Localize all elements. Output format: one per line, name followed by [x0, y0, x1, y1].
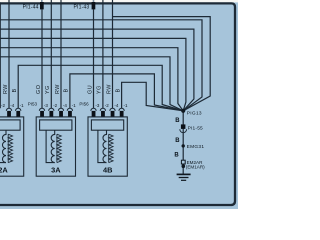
- svg-text:-3: -3: [95, 103, 99, 108]
- ignition coil 3A: [36, 108, 75, 176]
- connector socket arc 3A -1: [67, 108, 72, 111]
- bus wire from left edge level 2: [0, 29, 194, 111]
- bus wire from left edge level 1: [0, 20, 202, 111]
- connector socket arc 4B -3: [91, 108, 96, 111]
- svg-text:PI56: PI56: [79, 101, 89, 106]
- pin 2A -4: [7, 111, 11, 117]
- svg-text:RW: RW: [55, 84, 61, 94]
- svg-text:-3: -3: [44, 103, 48, 108]
- connector socket arc 3A -4: [58, 108, 63, 111]
- page background: [0, 0, 238, 209]
- diagram border: [0, 3, 235, 205]
- wire colour labels (vertical): [3, 84, 122, 94]
- wire 2A YG stub at left edge: [0, 2, 1, 108]
- wire 3A RW: [60, 0, 62, 108]
- svg-text:PI1-44: PI1-44: [23, 4, 39, 10]
- pin 3A -1: [68, 111, 72, 117]
- svg-text:PI53: PI53: [28, 101, 38, 106]
- white strip above diagram border: [0, 0, 238, 2]
- wire 4B GU: [93, 9, 95, 108]
- bus wire from left edge level 3: [0, 38, 186, 110]
- coil 3A outer box: [36, 117, 75, 176]
- svg-text:-4: -4: [114, 103, 118, 108]
- coil 4B winding: [103, 130, 107, 162]
- svg-text:RW: RW: [3, 84, 9, 94]
- coil 2A core hatches: [7, 134, 9, 162]
- ground: [177, 174, 191, 180]
- ignition coil 2A: [0, 108, 24, 176]
- pin 4B -4: [111, 111, 115, 117]
- svg-text:(EM1AR): (EM1AR): [186, 164, 205, 169]
- connector socket arc 2A -4: [6, 108, 11, 111]
- svg-text:GU: GU: [87, 85, 93, 94]
- svg-text:-2: -2: [53, 103, 57, 108]
- pin 4B -3: [92, 111, 96, 117]
- node EMG31: [182, 144, 185, 147]
- wire PIG13 down to ground: [182, 111, 184, 174]
- connector socket arc 3A -3: [39, 108, 44, 111]
- pin 2A -1: [16, 111, 20, 117]
- svg-text:3A: 3A: [51, 165, 61, 174]
- svg-text:GO: GO: [36, 85, 42, 94]
- svg-text:B: B: [175, 138, 180, 144]
- connector socket arc 4B -1: [119, 108, 124, 111]
- svg-text:-1: -1: [72, 103, 76, 108]
- pin 3A -2: [49, 111, 53, 117]
- pin 3A -4: [59, 111, 63, 117]
- wire 2A RW: [8, 0, 10, 108]
- coil 3A housing: [40, 120, 72, 130]
- connector socket arc 3A -2: [49, 108, 54, 111]
- svg-text:RW: RW: [106, 84, 112, 94]
- coil 2A primary wire: [0, 130, 6, 162]
- svg-text:-1: -1: [20, 103, 24, 108]
- svg-text:PI1-55: PI1-55: [188, 125, 203, 131]
- svg-text:-4: -4: [10, 103, 14, 108]
- wire 4B YG: [102, 0, 104, 108]
- coil 4B primary wire: [98, 130, 107, 162]
- svg-text:B: B: [174, 153, 179, 159]
- svg-text:-1: -1: [124, 103, 128, 108]
- pin 3A -3: [40, 111, 44, 117]
- svg-text:4B: 4B: [103, 165, 112, 174]
- svg-text:-4: -4: [63, 103, 67, 108]
- wire 2A B: [18, 65, 183, 111]
- svg-text:2A: 2A: [0, 165, 8, 174]
- wire 3A B: [70, 74, 183, 111]
- ignition coil 4B: [88, 108, 127, 176]
- node PIG13: [181, 109, 185, 113]
- pin 4B -1: [120, 111, 124, 117]
- wire 3A GO: [41, 9, 43, 108]
- wire 4B RW branch to funnel: [113, 17, 211, 111]
- svg-text:-2: -2: [105, 103, 109, 108]
- coil 2A outer box: [0, 117, 24, 176]
- connector socket arc 4B -4: [110, 108, 115, 111]
- pin number labels row: [1, 101, 128, 108]
- wire 3A YG: [50, 0, 52, 108]
- connector pin PI1-43: [73, 0, 95, 10]
- svg-text:YG: YG: [45, 85, 51, 94]
- coil 3A core hatches: [56, 134, 58, 162]
- connector socket arc 4B -2: [100, 108, 105, 111]
- svg-text:PIG13: PIG13: [187, 110, 202, 116]
- connector EM2AR: [181, 160, 205, 170]
- svg-text:EMG31: EMG31: [187, 144, 205, 150]
- coil 4B core hatches: [108, 134, 110, 162]
- pin 4B -2: [101, 111, 105, 117]
- bus wire from left edge level 5: [0, 57, 183, 111]
- svg-text:B: B: [115, 88, 121, 92]
- wire 4B RW: [112, 0, 114, 108]
- coil 4B housing: [91, 120, 123, 130]
- connector socket arc 2A -1: [16, 108, 21, 111]
- coil 3A primary wire: [46, 130, 55, 162]
- svg-text:B: B: [64, 88, 70, 92]
- wire 4B B: [122, 82, 184, 111]
- svg-text:B: B: [12, 88, 18, 92]
- coil 2A winding: [2, 130, 6, 162]
- svg-text:-2: -2: [1, 103, 5, 108]
- connector pin PI1-44: [23, 0, 44, 10]
- connector pin PI1-55: [180, 124, 203, 132]
- bus wire from left edge level 4: [0, 48, 183, 111]
- svg-text:B: B: [175, 118, 180, 124]
- svg-text:PI1-43: PI1-43: [73, 4, 89, 10]
- svg-text:YG: YG: [97, 85, 103, 94]
- coil 3A winding: [51, 130, 55, 162]
- coil 2A housing: [0, 120, 20, 130]
- coil 4B outer box: [88, 117, 127, 176]
